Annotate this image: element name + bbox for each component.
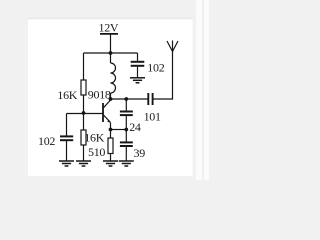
antenna	[167, 41, 178, 52]
wire supply vertical	[110, 35, 112, 54]
ground (under C5, top right)	[130, 78, 145, 83]
wire coil top lead	[110, 53, 112, 63]
emitter lead	[104, 115, 111, 130]
wire rail right drop to C5	[137, 53, 139, 61]
node C3 top	[124, 128, 128, 132]
node collector	[109, 97, 113, 101]
wire coil bottom to collector node	[110, 93, 112, 99]
transistor Q1 9018	[103, 100, 111, 130]
wire R2 bottom to ground	[83, 145, 85, 161]
capacitor C3 39	[120, 142, 133, 146]
wire C3 top lead	[125, 130, 127, 142]
wire left branch down to C1	[66, 114, 68, 137]
svg-text:12V: 12V	[99, 21, 119, 35]
node base	[82, 111, 86, 115]
svg-text:101: 101	[144, 109, 161, 123]
wire C2 branch drop	[125, 99, 127, 111]
capacitor C5 102 (top right)	[131, 62, 145, 66]
capacitor C4 101 (coupling)	[148, 93, 152, 105]
node emitter	[109, 128, 113, 132]
svg-text:510: 510	[88, 145, 105, 159]
ground (under R2)	[76, 161, 91, 166]
base bar	[102, 103, 104, 122]
resistor R2 16K	[81, 130, 86, 145]
node C2 top	[124, 97, 128, 101]
svg-text:102: 102	[147, 60, 164, 74]
emitter arrow	[107, 120, 111, 123]
ground (under C3)	[119, 161, 134, 166]
svg-text:24: 24	[129, 120, 141, 134]
wire C2 bottom to emitter node	[125, 116, 127, 130]
wire C5 bottom to ground	[137, 67, 139, 78]
svg-text:39: 39	[134, 146, 146, 160]
wire C4 to antenna corner	[153, 51, 172, 99]
wire base node down to R2	[83, 113, 85, 130]
resistor R1 16K	[81, 80, 86, 95]
resistor R3 510	[108, 138, 113, 154]
12V supply bar	[100, 33, 118, 35]
capacitor C2 24	[120, 112, 133, 116]
ground (under R3)	[103, 161, 118, 166]
svg-text:16K: 16K	[57, 88, 77, 102]
collector lead	[104, 100, 111, 108]
wire emitter horizontal	[111, 129, 127, 131]
node supply/rail	[109, 51, 113, 55]
capacitor C1 102 (left)	[60, 136, 73, 140]
svg-text:102: 102	[38, 134, 55, 148]
wire emitter node to R3	[110, 130, 112, 139]
ground (under C1)	[59, 161, 74, 166]
wire C3 bottom to ground	[125, 146, 127, 161]
svg-text:16K: 16K	[84, 131, 104, 145]
wire R3 bottom to ground	[110, 154, 112, 162]
wire collector node to C4	[111, 98, 148, 100]
wire base horizontal	[67, 113, 103, 115]
wire left drop to R1	[83, 53, 85, 80]
wire R1 bottom to base node	[83, 95, 85, 113]
inductor L1	[111, 63, 116, 93]
svg-text:9018: 9018	[88, 88, 111, 102]
wire C1 bottom to ground	[66, 141, 68, 162]
wire top rail	[84, 52, 138, 54]
